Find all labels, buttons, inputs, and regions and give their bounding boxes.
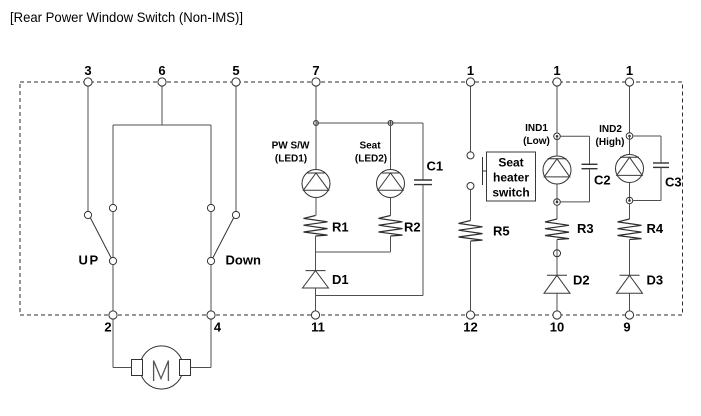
diode D2 <box>544 275 570 293</box>
svg-text:3: 3 <box>84 63 91 78</box>
pin 5 terminal <box>232 78 240 86</box>
svg-text:IND2: IND2 <box>599 124 622 135</box>
wire node to LED IND1 <box>556 136 558 156</box>
label C1 <box>427 159 444 174</box>
LED IND1 lamp <box>543 156 571 184</box>
pin number 6 <box>158 63 165 78</box>
label IND2 (High) <box>596 124 625 148</box>
node IND1 top <box>554 133 561 140</box>
resistor R1 <box>304 216 328 237</box>
svg-text:switch: switch <box>492 186 529 200</box>
wire pin 2 to motor <box>113 319 132 368</box>
svg-text:4: 4 <box>214 320 222 335</box>
wire R1 to D1 <box>315 236 317 271</box>
label Down <box>226 253 261 268</box>
wire R2 to join <box>390 236 392 252</box>
svg-text:R1: R1 <box>332 220 349 235</box>
Down switch wire to pole <box>210 212 212 258</box>
label PW S/W (LED1) <box>272 141 310 165</box>
svg-text:Down: Down <box>226 253 261 268</box>
wire LED IND1 to node <box>556 184 558 202</box>
UP switch blade <box>90 218 111 258</box>
label R3 <box>577 221 594 236</box>
diode D1 <box>303 271 329 288</box>
UP switch contact from pin 6 <box>109 204 116 211</box>
pin number 3 <box>84 63 91 78</box>
wire D1 to pin 11 <box>315 288 317 311</box>
svg-text:R4: R4 <box>647 221 664 236</box>
capacitor C1 <box>414 123 432 296</box>
resistor R4 <box>618 219 642 240</box>
label C2 <box>594 173 611 188</box>
svg-text:10: 10 <box>550 320 564 335</box>
pin 9 terminal <box>625 311 633 319</box>
UP switch pole node <box>109 257 116 264</box>
svg-text:PW S/W: PW S/W <box>272 141 310 152</box>
svg-text:D2: D2 <box>573 273 590 288</box>
svg-text:Seat: Seat <box>498 156 523 170</box>
svg-text:(LED2): (LED2) <box>355 154 387 165</box>
capacitor C2 <box>560 136 597 202</box>
wire from pin 1 to IND1 <box>556 86 558 133</box>
label D1 <box>332 272 349 287</box>
Down switch contact from pin 6 <box>207 204 214 211</box>
Down switch pole node <box>207 257 214 264</box>
wire pole UP to pin 2 <box>112 265 114 311</box>
pin number 12 <box>463 320 477 335</box>
label UP <box>79 253 100 268</box>
svg-text:9: 9 <box>623 320 630 335</box>
pin 7 terminal <box>312 78 320 86</box>
pin 10 terminal <box>553 311 561 319</box>
pin 2 terminal <box>109 311 117 319</box>
svg-text:2: 2 <box>104 320 111 335</box>
pin number 1b <box>553 63 560 78</box>
wire R3 to D2 <box>556 240 558 276</box>
pin number 1c <box>626 63 633 78</box>
node IND1 bottom <box>554 199 561 206</box>
svg-text:D3: D3 <box>647 273 664 288</box>
LED IND2 lamp <box>616 155 644 183</box>
wire R5 to pin 12 <box>470 241 472 311</box>
wire from pin 6 with branch <box>113 86 211 205</box>
svg-text:Seat: Seat <box>359 141 381 152</box>
wire node to LED IND2 <box>629 136 631 155</box>
diode D3 <box>617 275 643 293</box>
svg-text:[Rear Power Window Switch (Non: [Rear Power Window Switch (Non-IMS)] <box>10 9 243 25</box>
node IND2 bottom <box>626 197 633 204</box>
node R3-D2 <box>554 250 561 257</box>
Down switch contact from pin 5 <box>232 211 239 218</box>
svg-text:6: 6 <box>158 63 165 78</box>
svg-text:C3: C3 <box>665 175 682 190</box>
LED2 Seat lamp <box>377 170 405 198</box>
wire top rail to C1 branch <box>316 122 423 124</box>
svg-text:1: 1 <box>626 63 633 78</box>
wire R4 to D3 <box>629 240 631 276</box>
wire D3 to pin 9 <box>629 293 631 311</box>
wire LED IND2 to node <box>629 182 631 200</box>
LED1 PW S/W lamp <box>302 170 330 198</box>
pin 6 terminal <box>158 78 166 86</box>
pin number 1a <box>467 63 474 78</box>
svg-text:C2: C2 <box>594 173 611 188</box>
wire node to R3 <box>556 205 558 219</box>
label R4 <box>647 221 664 236</box>
wire node to LED1 <box>315 121 317 170</box>
label R5 <box>493 224 510 239</box>
svg-text:R3: R3 <box>577 221 594 236</box>
wire switch to R5 <box>470 190 472 221</box>
capacitor C3 <box>633 136 669 201</box>
svg-text:R5: R5 <box>493 224 510 239</box>
wire node to LED2 <box>390 121 392 170</box>
label R2 <box>404 220 421 235</box>
wire from pin 1 to IND2 <box>629 86 631 133</box>
wire LED2 to R2 <box>390 197 392 215</box>
UP switch wire to pole <box>112 212 114 258</box>
pin 1 terminal c <box>625 78 633 86</box>
pin number 2 <box>104 320 111 335</box>
wire pole Down to pin 4 <box>210 265 212 311</box>
node junction LED2 branch <box>388 121 393 126</box>
pin 12 terminal <box>466 311 474 319</box>
label Seat (LED2) <box>355 141 387 165</box>
pin number 4 <box>214 320 222 335</box>
svg-text:R2: R2 <box>404 220 421 235</box>
wire LED1 to R1 <box>315 197 317 215</box>
svg-text:heater: heater <box>493 171 529 185</box>
wire node to R4 <box>629 204 631 219</box>
svg-text:D1: D1 <box>332 272 349 287</box>
node IND2 top <box>626 133 633 140</box>
wire bottom rail to C1 <box>316 295 424 297</box>
pin number 5 <box>232 63 239 78</box>
svg-text:1: 1 <box>553 63 560 78</box>
UP switch contact from pin 3 <box>84 211 91 218</box>
label D3 <box>647 273 664 288</box>
seat heater switch contact upper <box>467 152 474 159</box>
svg-text:C1: C1 <box>427 159 444 174</box>
svg-text:5: 5 <box>232 63 239 78</box>
resistor R2 <box>379 216 403 237</box>
svg-text:1: 1 <box>467 63 474 78</box>
pin number 9 <box>623 320 630 335</box>
Down switch blade <box>213 218 234 258</box>
label C3 <box>665 175 682 190</box>
resistor R5 <box>459 221 483 242</box>
motor M <box>132 346 191 389</box>
label R1 <box>332 220 349 235</box>
wire join R2 branch <box>316 251 391 253</box>
pin 1 terminal b <box>553 78 561 86</box>
svg-text:UP: UP <box>79 253 100 268</box>
label IND1 (Low) <box>523 123 550 147</box>
wire from pin 1 to seat heater switch <box>470 86 472 152</box>
svg-text:(High): (High) <box>596 137 625 148</box>
resistor R3 <box>545 219 569 240</box>
wire D2 to pin 10 <box>556 293 558 311</box>
svg-text:7: 7 <box>312 63 319 78</box>
seat heater switch actuator <box>483 157 487 185</box>
seat heater switch box <box>487 152 536 201</box>
label D2 <box>573 273 590 288</box>
svg-text:11: 11 <box>311 320 325 335</box>
wire pin 4 to motor <box>191 319 212 368</box>
pin number 11 <box>311 320 325 335</box>
node junction under pin 7 <box>314 121 319 126</box>
pin 4 terminal <box>207 311 215 319</box>
wire from pin 7 <box>315 86 317 121</box>
pin 1 terminal a <box>466 78 474 86</box>
wire from pin 3 <box>87 86 89 212</box>
svg-text:12: 12 <box>463 320 477 335</box>
pin number 7 <box>312 63 319 78</box>
wire from pin 5 <box>235 86 237 212</box>
seat heater switch contact lower <box>467 183 474 190</box>
pin 3 terminal <box>84 78 92 86</box>
dashed connector boundary box <box>20 82 683 315</box>
svg-text:(LED1): (LED1) <box>275 154 307 165</box>
svg-text:(Low): (Low) <box>523 136 550 147</box>
svg-text:IND1: IND1 <box>525 123 548 134</box>
pin 11 terminal <box>311 311 319 319</box>
pin number 10 <box>550 320 564 335</box>
